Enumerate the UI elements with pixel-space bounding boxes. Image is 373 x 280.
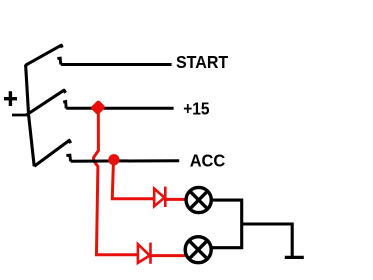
wire +15: [66, 107, 173, 110]
battery + polarity mark: [4, 91, 17, 106]
wire from ACC junction down to upper lamp row (red): [112, 160, 153, 199]
wire diode D2 to lamp L2 (red): [152, 254, 186, 257]
ground: [285, 256, 304, 259]
switch arm (START position): [26, 45, 63, 65]
switch arm (+15 position): [26, 90, 65, 115]
svg-text:+15: +15: [183, 99, 210, 119]
svg-text:START: START: [176, 52, 228, 72]
lamp L1 (upper): [186, 187, 211, 212]
diode D2 (lower, red): [138, 243, 151, 264]
lamp L2 (lower): [185, 237, 211, 263]
ignition switch common bus: [26, 65, 35, 167]
junction dot on +15 (red diamond): [90, 100, 106, 116]
ACC contact hook: [66, 155, 70, 161]
battery positive terminal tick: [12, 114, 29, 117]
svg-text:ACC: ACC: [190, 151, 226, 171]
wire common node to ground: [242, 224, 293, 257]
wire START: [61, 63, 172, 66]
diode D1 (upper, red): [154, 187, 165, 207]
+15 contact hook: [63, 102, 66, 109]
switch arm (ACC position): [34, 140, 70, 166]
START contact hook: [57, 58, 60, 64]
junction dot on ACC (red): [108, 154, 119, 165]
wire lamp L1 output to common node: [212, 200, 242, 248]
wire ACC: [71, 159, 180, 163]
wire diode D1 to lamp L1 (red): [167, 198, 186, 201]
wire from +15 junction down (red, hops over ACC): [94, 108, 138, 255]
